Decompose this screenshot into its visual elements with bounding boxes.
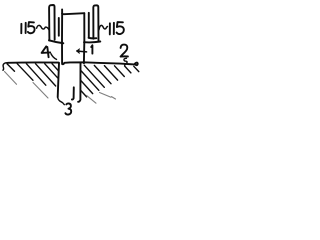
die left block right edge (slot wall) [58,63,59,97]
punch block 1 right edge [83,13,85,63]
label 3 [65,103,71,114]
hatch right block [81,65,139,103]
leader arrow for 1 [77,49,87,53]
clip 115 left bottom [49,40,63,43]
label 1 [91,45,92,53]
hatch left block [5,64,59,98]
clip 115 right bottom flange [84,41,100,44]
punch block 1 left edge [61,13,63,63]
leader from 4 [51,54,57,60]
label 115 right [110,22,124,34]
label 115 left [21,22,34,33]
clip 115 left outer bar [49,5,55,41]
base surface line left [8,61,59,63]
leader to 3 [58,97,65,104]
label 4 [42,46,51,57]
clip 115 right inner lip [88,13,90,38]
label 2 [121,45,128,57]
clip 115 right outer bar [93,5,98,41]
punch stem right edge below surface [72,87,74,99]
punch block 1 top stub [61,9,63,13]
surface line right (under punch to right end with curl) [62,62,137,65]
punch block 1 top edge [62,13,84,14]
leader squiggle right 115 [99,25,108,29]
clip 115 right bottom inner [89,37,97,40]
leader squiggle left 115 [37,25,50,30]
leader squiggle from 2 to surface [124,58,127,65]
die pillar left edge (slot right wall) [78,63,80,102]
left end hook of surface line [3,63,8,70]
clip 115 left inner lip [58,18,60,36]
